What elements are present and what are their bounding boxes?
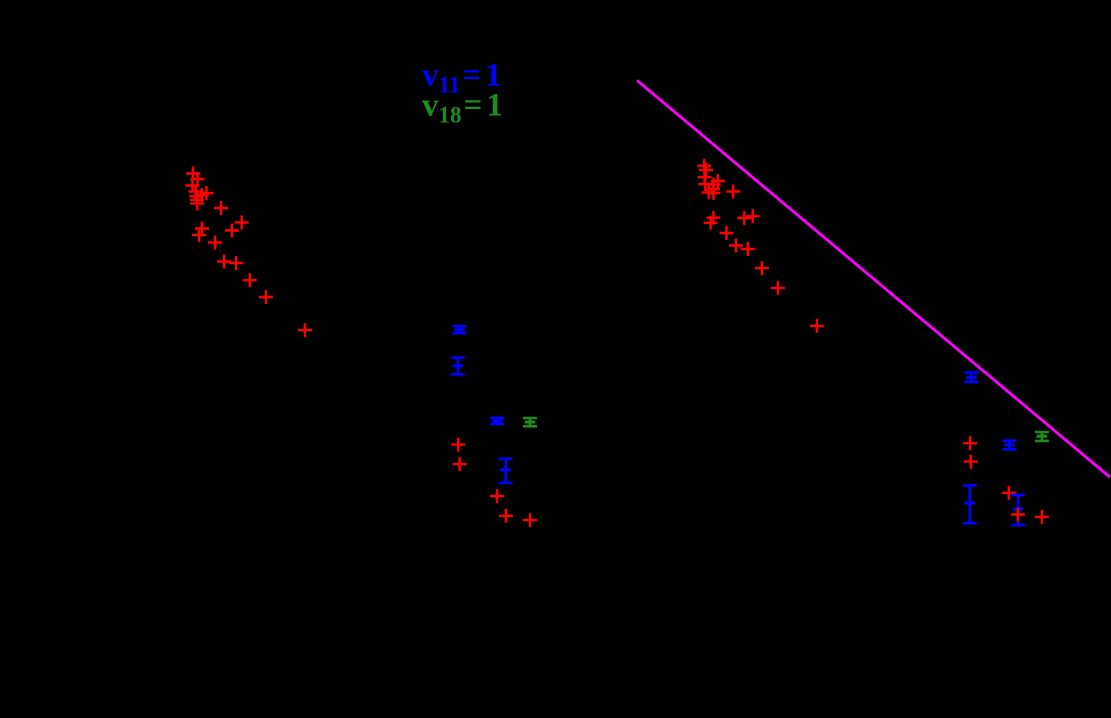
error bars — [452, 326, 466, 333]
right-bottom red points (under bars) — [963, 436, 977, 450]
middle red points — [451, 438, 465, 452]
left red cluster — [186, 167, 200, 181]
right-bottom red points (over bars) — [1011, 508, 1025, 522]
right red cluster — [697, 159, 711, 173]
magenta model line — [637, 80, 1110, 477]
